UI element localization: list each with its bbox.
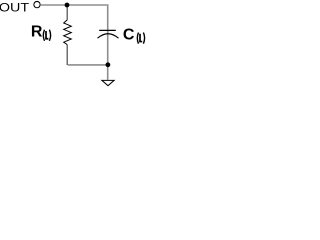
svg-text:R: R — [31, 24, 43, 41]
svg-text:C: C — [123, 27, 135, 44]
svg-text:OUT: OUT — [0, 1, 29, 15]
